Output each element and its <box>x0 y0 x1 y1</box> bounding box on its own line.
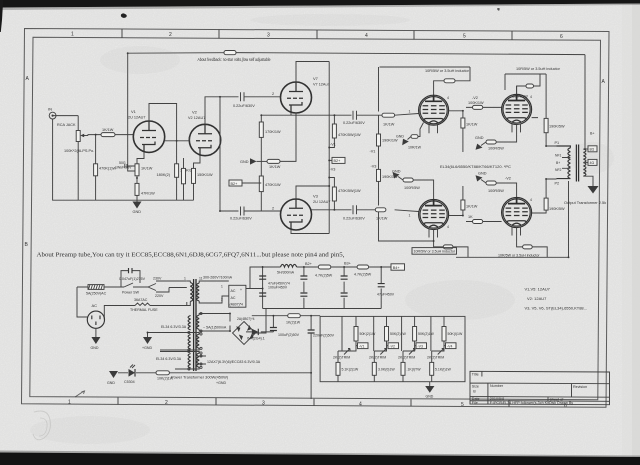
title block texts <box>472 373 587 406</box>
bias column 1 resistor 50K <box>338 316 376 381</box>
svg-text:1K/1W: 1K/1W <box>383 123 395 127</box>
svg-text:Revision: Revision <box>573 385 587 389</box>
svg-text:Power Transformer 300W(450W): Power Transformer 300W(450W) <box>171 374 229 379</box>
transformer T2 left-side lower windings <box>188 316 191 368</box>
svg-text:(4B07)*4: (4B07)*4 <box>230 303 243 307</box>
svg-text:10R/1W: 10R/1W <box>408 146 422 150</box>
thermal fuse <box>104 298 187 320</box>
svg-text:-V1: -V1 <box>330 143 336 147</box>
ground cathode top-left <box>396 135 411 146</box>
wire cathode top-left <box>418 123 424 137</box>
svg-text:2: 2 <box>169 32 172 38</box>
svg-text:230V: 230V <box>153 277 162 281</box>
resistor grid leak 470K/1W <box>94 135 117 176</box>
triode V7 phase splitter <box>281 76 330 113</box>
fuse F1 mains <box>77 285 121 296</box>
svg-text:50G: 50G <box>119 161 126 165</box>
svg-text:0.22uF/630V: 0.22uF/630V <box>343 217 365 221</box>
bias column 2 trimmer 2K <box>369 349 386 360</box>
resistor grid leak top 470K/5W <box>329 115 361 147</box>
svg-text:-V4: -V4 <box>447 344 453 348</box>
bottom scan black strip <box>0 453 640 465</box>
svg-text:NF2: NF2 <box>555 168 562 172</box>
wire V7 anode to rail <box>296 62 329 83</box>
pentode V3 output top-left <box>409 95 450 133</box>
resistor tail 1K/1W horizontal <box>267 113 296 169</box>
svg-text:1: 1 <box>409 214 411 218</box>
svg-text:Power SW: Power SW <box>122 291 140 295</box>
sheet inner border frame <box>30 37 601 400</box>
svg-text:Output Transformer 2.5k: Output Transformer 2.5k <box>564 200 606 205</box>
svg-text:GND: GND <box>133 210 142 214</box>
capacitor bias 220uF/50V <box>308 330 335 338</box>
node RCA input jack <box>48 107 76 128</box>
transformer T1 core <box>576 145 578 182</box>
label B2+ boxed rail <box>329 157 345 163</box>
svg-text:6: 6 <box>560 34 563 40</box>
sheet outer border frame <box>22 29 610 408</box>
grid numbers bottom row <box>68 400 567 410</box>
capacitor output coupling top 0.22uF <box>343 111 365 125</box>
svg-text:2U 12AU7: 2U 12AU7 <box>128 116 146 120</box>
wire AC plug to fuse <box>77 287 88 317</box>
transformer T2 core <box>194 279 196 371</box>
ground tail GND arrow left <box>240 158 267 164</box>
bias column 1 label -V1 <box>356 343 368 349</box>
svg-text:RCA JACK: RCA JACK <box>57 123 76 127</box>
capacitor X 0.047uF/275V <box>119 268 146 287</box>
svg-text:2A(4B07)*4: 2A(4B07)*4 <box>237 317 255 321</box>
svg-text:4: 4 <box>530 198 532 202</box>
svg-text:2K(2)TRIM: 2K(2)TRIM <box>333 356 350 360</box>
resistor V1 plate load 100K/2W <box>137 164 196 200</box>
svg-text:EL34(6L6/6550/KT88/KT66/KT120.: EL34(6L6/6550/KT88/KT66/KT120. *PC <box>440 164 511 169</box>
grid numbers top row <box>71 32 563 41</box>
transformer T2 secondary 6.3V lower <box>156 352 261 370</box>
svg-text:Size: Size <box>472 385 479 389</box>
svg-text:V7 12Au7: V7 12Au7 <box>313 83 330 87</box>
svg-text:300-260V?100mA: 300-260V?100mA <box>203 276 233 280</box>
wire bias rail -V vertical <box>379 67 434 241</box>
svg-text:50K(I)1W: 50K(I)1W <box>448 332 463 336</box>
svg-text:0.047uF(1)275V: 0.047uF(1)275V <box>119 277 146 281</box>
right edge scan shading <box>622 0 640 465</box>
svg-text:470K/1W: 470K/1W <box>265 183 281 187</box>
svg-text:2K(2)TRIM: 2K(2)TRIM <box>369 356 386 360</box>
svg-text:F:\PCB\EL34 HFP follower(s-3ch: F:\PCB\EL34 HFP follower(s-3ch KitDisk D… <box>490 401 573 405</box>
svg-text:About Preamp tube,You can try: About Preamp tube,You can try it ECC85,E… <box>37 252 345 259</box>
svg-text:190K/5W: 190K/5W <box>549 125 565 129</box>
svg-text:2: 2 <box>272 92 274 96</box>
svg-text:1: 1 <box>409 110 411 114</box>
resistor choke 10R/5W bottom-right <box>523 245 533 249</box>
bias column 4 resistor 50K <box>432 316 463 381</box>
svg-text:-V3: -V3 <box>330 168 336 172</box>
svg-text:50K(2)1W: 50K(2)1W <box>390 332 406 336</box>
svg-text:+: + <box>240 288 242 292</box>
svg-text:4: 4 <box>447 225 449 229</box>
capacitor filter 47uF/450V <box>377 284 395 297</box>
svg-text:2U 12AU7: 2U 12AU7 <box>313 200 331 204</box>
svg-text:IN4(2G4).1: IN4(2G4).1 <box>247 337 265 341</box>
svg-text:0.22uF/630V: 0.22uF/630V <box>343 121 365 125</box>
transformer T2 power primary <box>184 277 193 306</box>
svg-text:100uF/450V: 100uF/450V <box>268 286 288 290</box>
svg-text:C5304: C5304 <box>124 380 135 384</box>
diode bias 1N4007 <box>247 329 265 341</box>
svg-text:100uF(2)50V: 100uF(2)50V <box>278 333 300 337</box>
svg-text:150K/1W: 150K/1W <box>197 173 213 177</box>
potentiometer volume 100K ALPS <box>56 116 101 153</box>
svg-text:47uF/450V: 47uF/450V <box>377 293 395 297</box>
ground anode bottom-right <box>476 172 487 184</box>
svg-text:AC: AC <box>92 303 98 308</box>
svg-text:GND: GND <box>91 346 99 350</box>
svg-text:B+: B+ <box>590 132 595 136</box>
wire V2 anode up to coupling node <box>205 97 239 211</box>
pentode V4 output top-right <box>502 94 532 132</box>
svg-text:About feedback: no-star volts,: About feedback: no-star volts,(low self … <box>198 57 272 62</box>
svg-text:GND: GND <box>475 136 484 140</box>
bias column 4 trimmer 2K <box>427 349 444 360</box>
svg-text:-V2: -V2 <box>390 344 396 348</box>
svg-text:4.7K(2)5W: 4.7K(2)5W <box>354 273 372 277</box>
wire secondary tap 0ohm to ground <box>583 176 593 186</box>
svg-text:V2 12AU7: V2 12AU7 <box>188 116 205 120</box>
resistor 190K/5W right lower <box>532 179 565 213</box>
svg-text:4: 4 <box>359 401 362 407</box>
svg-text:1: 1 <box>184 277 186 281</box>
svg-text:GND: GND <box>240 160 249 164</box>
wire anode choke line top-right pair <box>505 74 546 118</box>
resistor V1 cathode 1K/1W <box>135 164 153 176</box>
svg-text:10R/5W or 3.5uH inductor: 10R/5W or 3.5uH inductor <box>414 250 456 254</box>
ground AC plug <box>91 328 101 350</box>
capacitor V1 cathode bypass 100uF/25V <box>115 161 137 170</box>
capacitor filter bank 3 <box>341 276 348 296</box>
transformer T2 secondary 5V <box>197 314 230 332</box>
capacitor filter bank 2 <box>300 276 307 296</box>
svg-text:5A(250V)AC: 5A(250V)AC <box>86 292 107 296</box>
svg-text:B2+: B2+ <box>231 182 239 186</box>
svg-text:3: 3 <box>262 401 265 407</box>
resistor top bottom-left <box>403 178 434 200</box>
transformer T2 secondary 6.3V EL34 upper <box>148 325 200 350</box>
svg-text:470K/5W(1W: 470K/5W(1W <box>338 189 361 193</box>
bias column 3 resistor 5.1K <box>401 362 421 375</box>
wire anode choke line top-left pair <box>380 67 471 95</box>
svg-text:0.22uF/630V: 0.22uF/630V <box>233 104 255 108</box>
svg-text:V3, V5, V6, ST(EL34),6550,KT8: V3, V5, V6, ST(EL34),6550,KT88... <box>525 306 587 311</box>
resistor choke 10R/5W top-left <box>444 79 455 83</box>
wire B+ filter top line <box>263 267 391 309</box>
resistor grid stopper 1K/1W <box>101 128 133 137</box>
svg-text:1K: 1K <box>468 215 473 219</box>
ground bias box <box>425 382 434 399</box>
label B4+ boxed <box>391 264 405 270</box>
svg-text:50K(2)1W: 50K(2)1W <box>418 332 434 336</box>
bias column 2 resistor 50K <box>374 316 406 381</box>
resistor top bottom-right <box>486 181 517 198</box>
svg-text:1K/1W: 1K/1W <box>269 165 281 169</box>
svg-text:5: 5 <box>463 34 466 40</box>
svg-text:V2: 12AU7: V2: 12AU7 <box>527 296 547 301</box>
svg-text:-V3: -V3 <box>371 165 377 169</box>
svg-text:NF1: NF1 <box>555 154 562 158</box>
svg-text:B4+: B4+ <box>393 266 401 270</box>
svg-text:GND: GND <box>107 381 115 385</box>
resistor V1 cathode lower 47R/1W <box>135 176 155 202</box>
ground below V1 cathode <box>133 202 142 215</box>
svg-text:1: 1 <box>71 32 74 38</box>
svg-text:170K/1W: 170K/1W <box>265 130 281 134</box>
transformer T1 primary taps NF1 B+ NF2 <box>555 154 570 172</box>
svg-text:2: 2 <box>165 400 168 406</box>
resistor V2 left 150K <box>156 158 185 200</box>
ground cathode top-right <box>475 136 486 150</box>
resistor grid stopper bottom 1K/1W <box>375 208 388 221</box>
svg-text:V2: V2 <box>192 110 198 115</box>
svg-text:.1K(I)TW: .1K(I)TW <box>407 368 422 372</box>
top scan black strip <box>0 0 640 8</box>
resistor splitter 170K/1W <box>259 122 281 161</box>
svg-text:IN: IN <box>48 107 52 112</box>
svg-text:B2+: B2+ <box>334 159 342 163</box>
bias adjust network box <box>320 316 465 381</box>
svg-text:1K(2)1W: 1K(2)1W <box>286 321 301 325</box>
resistor cathode top-right <box>486 140 504 151</box>
wire supply rail B2 vertical <box>328 62 330 234</box>
wire splitter top signal line <box>261 114 418 116</box>
svg-text:220uF(2)50V: 220uF(2)50V <box>313 334 335 338</box>
inductor choke 5H/300mA <box>277 264 297 274</box>
ground speaker return <box>588 186 599 194</box>
svg-text:1: 1 <box>221 285 223 289</box>
resistor choke 10R/5W top-right <box>526 84 534 88</box>
resistor grid feed bottom-right <box>466 215 502 224</box>
svg-text:-V1: -V1 <box>370 150 376 154</box>
triode V3 phase splitter lower <box>281 194 331 231</box>
transformer T1 secondary winding <box>583 149 586 176</box>
svg-text:100R/5W: 100R/5W <box>488 147 504 151</box>
wire anode bottom-right to bus <box>517 228 548 258</box>
wire V3 cathode to rail bottom <box>291 230 329 234</box>
wire input ground run <box>53 116 137 201</box>
ground heater <box>142 337 152 350</box>
label B2+ boxed <box>229 180 261 186</box>
svg-text:-V2: -V2 <box>472 96 478 100</box>
svg-text:1: 1 <box>68 400 71 406</box>
svg-text:10R/5W or 3.5uH inductor: 10R/5W or 3.5uH inductor <box>425 69 470 73</box>
switch power SW <box>121 283 140 295</box>
resistor grid leak bottom 470K/5W <box>329 178 361 210</box>
svg-text:10R/5W or 3.5uH inductor: 10R/5W or 3.5uH inductor <box>498 253 540 257</box>
svg-text:EL34 6.3V/3.3A: EL34 6.3V/3.3A <box>156 357 182 361</box>
wire V3 anode to rail <box>296 186 329 199</box>
ground LED <box>107 371 118 385</box>
svg-text:1K/1W: 1K/1W <box>102 128 114 132</box>
wire long vertical left of bias box <box>310 316 312 399</box>
bridge rectifier BR1 <box>233 317 256 345</box>
bottom-left smudge <box>33 411 50 440</box>
wire V1 to V2 grid <box>165 137 190 141</box>
bias column 4 resistor 5.1K <box>430 362 452 375</box>
resistor choke 10R/5W bottom-left <box>443 245 453 249</box>
resistor B filter 4.7K/5W second <box>354 265 372 277</box>
scratch mark near bottom 1 <box>75 391 85 397</box>
resistor NFB <box>224 51 236 55</box>
rectifier module AC box <box>229 285 246 307</box>
resistor B filter 4.7K/5W first <box>315 265 333 278</box>
svg-text:-V2: -V2 <box>505 177 511 181</box>
capacitor coupling top 0.22uF/630V <box>233 92 262 108</box>
wire anode bottom-left to bus <box>434 230 468 258</box>
bias column 1 resistor 5.1K <box>336 362 359 375</box>
svg-text:1K/1W: 1K/1W <box>376 217 388 221</box>
svg-text:100R/5W: 100R/5W <box>404 186 420 190</box>
svg-text:2: 2 <box>221 298 223 302</box>
svg-text:12AX7(6.3V)6)/ECC83 6.3V/0.3A: 12AX7(6.3V)6)/ECC83 6.3V/0.3A <box>207 360 261 364</box>
svg-text:470K/5W(1W: 470K/5W(1W <box>338 133 361 137</box>
transformer T2 tap circles <box>188 312 202 370</box>
svg-text:5.1K(I)1W: 5.1K(I)1W <box>435 368 451 372</box>
wire into V7 grid pin2 <box>262 92 281 97</box>
grid tick marks top <box>122 29 512 40</box>
resistor V2 cathode 180R <box>192 156 214 201</box>
svg-text:4: 4 <box>447 96 449 100</box>
svg-text:2K(2)TRIM: 2K(2)TRIM <box>398 356 415 360</box>
svg-text:1K/1W: 1K/1W <box>466 205 478 209</box>
bias column 3 label -V3 <box>415 343 427 349</box>
svg-text:-V1: -V1 <box>359 344 365 348</box>
resistor 190K/1W upper <box>377 134 399 146</box>
pentode V6 output bottom-right <box>502 198 532 236</box>
svg-text:100K*2(ALPS.Po.: 100K*2(ALPS.Po. <box>64 149 94 153</box>
svg-text:V1,V5: 12AU7: V1,V5: 12AU7 <box>525 287 551 292</box>
LED indicator <box>118 365 156 385</box>
svg-text:3.0K(0)1W: 3.0K(0)1W <box>378 368 395 372</box>
resistor screen top-left 1K/5W <box>449 111 478 152</box>
svg-text:THERMAL FUSE: THERMAL FUSE <box>130 308 158 312</box>
wire secondary tap 4ohm <box>583 159 597 165</box>
resistor bias 1K/1W <box>286 314 301 325</box>
ground anode bottom-left <box>392 170 403 181</box>
svg-text:4.7K(2)5W: 4.7K(2)5W <box>315 274 333 278</box>
capacitor output coupling bottom 0.22uF <box>343 205 365 220</box>
svg-text:220V: 220V <box>155 294 164 298</box>
svg-text:~ 5A(1)500mA: ~ 5A(1)500mA <box>203 326 227 330</box>
wire filter ground bus <box>263 308 382 310</box>
svg-text:AC: AC <box>231 289 236 293</box>
svg-text:5: 5 <box>461 402 464 408</box>
capacitor bias 100uF/50V <box>270 328 300 338</box>
resistor 190K/5W right upper <box>544 118 565 146</box>
wire secondary tap 8ohm NFB <box>583 132 597 152</box>
svg-text:2: 2 <box>272 207 274 211</box>
resistor screen bottom-left <box>449 186 478 216</box>
dust speck top <box>121 8 500 18</box>
switch voltage select 230V/220V <box>140 277 187 299</box>
svg-text:100K/1W: 100K/1W <box>468 101 484 105</box>
svg-text:+GND: +GND <box>216 381 226 385</box>
svg-text:4: 4 <box>530 95 532 99</box>
wire V1 cathode <box>135 152 144 171</box>
wire bias feed line <box>246 316 320 332</box>
svg-text:0.22uF/630V: 0.22uF/630V <box>230 217 252 221</box>
svg-text:-V3: -V3 <box>418 344 424 348</box>
resistor grid stopper top 1K/1W <box>382 113 395 126</box>
grid tick marks bottom <box>118 398 509 408</box>
svg-text:B3+: B3+ <box>344 262 352 266</box>
pentode V5 output bottom-left <box>409 200 450 238</box>
transformer T2 secondary HV 300-260V <box>197 276 233 304</box>
wire NFB feedback top line <box>128 53 585 171</box>
svg-text:36A7AC: 36A7AC <box>134 298 148 302</box>
svg-text:B+: B+ <box>556 161 560 165</box>
resistor grid feed top-right 100K/1W <box>466 101 502 109</box>
svg-text:AC: AC <box>231 296 236 300</box>
wire bias box column verticals <box>342 316 431 351</box>
svg-text:Number: Number <box>490 384 504 388</box>
left scan black sliver <box>0 0 3 32</box>
resistor 190K/1W lower <box>377 169 399 181</box>
wire splitter bottom signal line <box>296 210 419 212</box>
svg-text:180K(2): 180K(2) <box>156 173 170 177</box>
svg-text:190K/5W: 190K/5W <box>549 207 565 211</box>
svg-text:2K(2)TRIM: 2K(2)TRIM <box>427 356 444 360</box>
bias column 2 label -V2 <box>387 343 399 349</box>
labels AC box pins <box>221 285 223 302</box>
wire cathode top-right <box>496 124 517 142</box>
svg-text:1K/1W: 1K/1W <box>466 123 478 127</box>
bias column 1 trimmer 2K <box>333 349 350 360</box>
svg-text:P1: P1 <box>555 141 560 145</box>
wire bottom bus to transformer <box>456 181 569 257</box>
svg-text:1K/1W: 1K/1W <box>141 167 153 171</box>
svg-text:V1: V1 <box>131 109 137 114</box>
svg-text:P2: P2 <box>555 182 560 186</box>
capacitor filter bank 1 <box>259 276 290 296</box>
svg-text:V7: V7 <box>313 76 319 81</box>
resistor splitter lower 470K/1W <box>259 161 281 211</box>
capacitor coupling bottom 0.22uF/630V <box>230 207 281 221</box>
wire B+ raw from rectifier <box>246 267 266 333</box>
svg-text:100R/5W: 100R/5W <box>488 189 504 193</box>
triode V2 <box>188 110 221 156</box>
svg-text:47R/1W: 47R/1W <box>141 192 155 196</box>
bias column 4 label -V4 <box>444 343 456 349</box>
transformer T1 output primary winding <box>555 141 571 186</box>
svg-text:File: File <box>472 401 478 405</box>
svg-text:5H/300mA: 5H/300mA <box>277 271 295 275</box>
label choke bottom-left boxed <box>412 248 457 255</box>
svg-text:4: 4 <box>365 33 368 39</box>
triode V1 <box>128 109 165 152</box>
svg-text:1WuF/25V: 1WuF/25V <box>115 166 132 170</box>
AC plug socket <box>87 303 104 328</box>
svg-text:GND: GND <box>426 395 434 399</box>
svg-text:+GND: +GND <box>142 346 152 350</box>
svg-text:Title: Title <box>472 373 479 377</box>
svg-text:5.1K(2)1W: 5.1K(2)1W <box>342 368 359 372</box>
wire V1 anode to load <box>149 104 177 164</box>
svg-text:10R/5W or 3.5uH inductor: 10R/5W or 3.5uH inductor <box>516 67 561 71</box>
bias column 3 trimmer 2K <box>398 349 415 360</box>
bias column 2 resistor 5.1K <box>372 362 395 375</box>
svg-text:B2+: B2+ <box>305 262 313 266</box>
bias column 3 resistor 50K <box>403 316 434 381</box>
svg-text:50K(2)1W: 50K(2)1W <box>360 332 376 336</box>
